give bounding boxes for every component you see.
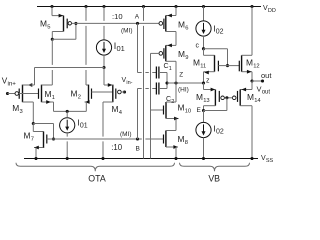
wire C2 to node Z — [159, 88, 167, 90]
junction dot node E — [202, 109, 205, 112]
brace OTA — [16, 163, 175, 172]
wire M2 drain lead — [85, 7, 87, 21]
node out terminal — [261, 79, 264, 82]
wire node B bias line — [54, 138, 142, 140]
wire M12 source lead — [242, 71, 252, 73]
wire common source node — [54, 110, 87, 112]
junction dot VDD/M2 drain — [84, 5, 87, 8]
svg-text:02: 02 — [216, 29, 224, 36]
wire M5 drain lead — [52, 31, 63, 33]
junction dot M5 drain — [51, 38, 54, 41]
svg-text:01: 01 — [80, 122, 88, 129]
wire node A leg to C1 — [137, 23, 139, 72]
junction dot VDD/I01 — [102, 5, 105, 8]
svg-text:A: A — [135, 14, 140, 21]
wire I01 bottom to VSS — [66, 111, 68, 117]
wire M14 drain lead — [240, 105, 252, 107]
junction dot M3-source node — [102, 66, 105, 69]
junction dot M11/M12 gates — [226, 64, 229, 67]
junction dot tail node — [66, 110, 69, 113]
wire M13 source lead — [204, 89, 216, 91]
svg-text:1: 1 — [169, 66, 172, 72]
svg-text:M: M — [112, 104, 119, 114]
wire I01 bottom lead — [103, 55, 105, 67]
wire node C to gates — [204, 48, 228, 50]
svg-text:01: 01 — [117, 44, 125, 53]
svg-text:M: M — [178, 20, 185, 30]
svg-text:B: B — [136, 146, 140, 153]
svg-text:10: 10 — [185, 109, 191, 115]
junction dot VDD/M5 source — [50, 5, 53, 8]
wire M11 drain lead — [203, 49, 205, 56]
junction dot M5 gate — [74, 22, 77, 25]
wire M6 drain lead — [166, 31, 176, 33]
transistor M2 — [91, 89, 93, 99]
wire VDD rail — [37, 6, 261, 8]
svg-text:2: 2 — [78, 95, 81, 101]
junction dot VSS/I01 — [66, 157, 69, 160]
transistor M12 — [238, 61, 240, 72]
svg-text:VB: VB — [208, 173, 220, 183]
svg-text:(HI): (HI) — [178, 86, 189, 93]
wire node Z — [167, 82, 204, 84]
capacitor C2 — [155, 83, 157, 95]
wire out — [252, 80, 263, 82]
wire M12 gate lead — [228, 65, 240, 67]
junction dot C1C2/Z — [165, 81, 168, 84]
svg-text:14: 14 — [254, 98, 261, 104]
svg-text:in+: in+ — [7, 80, 16, 87]
wire M7 source lead — [34, 147, 44, 149]
transistor M7 — [43, 132, 45, 149]
current source I02 top — [196, 21, 211, 36]
current source I02 bottom — [196, 122, 211, 137]
transistor M1 — [38, 89, 40, 99]
svg-text:1: 1 — [52, 95, 55, 101]
svg-text:(MI): (MI) — [121, 28, 133, 35]
svg-text:out: out — [262, 90, 271, 96]
svg-text:M: M — [196, 92, 203, 102]
wire M12 drain lead — [251, 7, 253, 56]
junction dot node C — [202, 47, 205, 50]
wire M3 drain lead — [23, 101, 34, 103]
wire M7 gate-drain hook — [33, 123, 53, 125]
svg-text:z: z — [206, 78, 210, 85]
wire I02 top lead — [203, 7, 205, 22]
junction dot node z — [202, 81, 205, 84]
wire M3 source node line — [35, 67, 105, 69]
transistor M9 — [165, 45, 167, 61]
svg-text:6: 6 — [185, 26, 188, 32]
junction dot VSS/M7 — [34, 157, 37, 160]
transistor M6 — [165, 16, 167, 32]
wire M10 drain lead — [166, 101, 176, 103]
transistor M11 — [214, 55, 216, 71]
wire E to I02 — [203, 111, 205, 123]
wire M9 gate to M10 gate — [151, 52, 159, 54]
wire M1 drain lead — [42, 84, 53, 86]
brace VB — [180, 163, 250, 172]
svg-text:SS: SS — [266, 158, 274, 164]
wire M14 source lead — [251, 81, 253, 90]
junction dot VDD/I02 — [202, 5, 205, 8]
svg-text:02: 02 — [216, 129, 224, 136]
transistor M4 — [115, 89, 117, 99]
wire node A gate line M5-M6 — [72, 22, 159, 24]
wire M5 source lead — [51, 7, 53, 16]
wire M13 drain lead — [204, 105, 216, 107]
wire stub x150 — [150, 110, 152, 159]
wire M4 drain lead — [103, 101, 113, 103]
wire M5 gate-drain hook — [52, 38, 76, 40]
junction dot VDD x143 — [142, 5, 145, 8]
svg-text:DD: DD — [268, 8, 276, 14]
junction dot Z mid — [174, 81, 177, 84]
svg-text:7: 7 — [31, 137, 34, 143]
junction dot VSS/M4 — [101, 157, 104, 160]
svg-text:in-: in- — [126, 80, 132, 86]
junction dot M7 drain — [32, 122, 35, 125]
wire M9 drain lead — [166, 60, 176, 62]
wire C1 to node Z — [159, 72, 167, 74]
wire VSS rail — [24, 158, 258, 160]
wire I01 top lead — [103, 7, 105, 21]
wire M4 source lead — [103, 68, 105, 86]
svg-text:c: c — [196, 43, 200, 50]
transistor M13 — [214, 90, 216, 106]
svg-text:12: 12 — [253, 64, 259, 70]
junction dot VDD/M12 — [250, 5, 253, 8]
svg-text:9: 9 — [185, 55, 188, 61]
wire I02 bottom to VSS — [203, 138, 205, 159]
svg-text:out: out — [261, 71, 272, 80]
junction dot VSS/M8 — [174, 157, 177, 160]
wire M13/M14 gate tie — [224, 97, 232, 99]
svg-text:OTA: OTA — [88, 173, 106, 183]
node Vin+ terminal — [6, 92, 9, 95]
wire M6 source lead — [175, 7, 177, 16]
wire I02 to node C — [203, 36, 205, 49]
wire M8 source lead — [166, 146, 178, 148]
junction dot out — [250, 79, 253, 82]
junction dot node A — [136, 22, 139, 25]
transistor M3 — [15, 92, 19, 96]
wire M11 source lead — [204, 71, 215, 73]
junction dot M7 gate — [52, 137, 55, 140]
svg-text:11: 11 — [200, 64, 206, 70]
transistor M8 — [163, 135, 165, 144]
svg-text:13: 13 — [203, 98, 209, 104]
junction dot VSS/I02 — [202, 157, 205, 160]
transistor M10 — [163, 106, 165, 115]
svg-text:M: M — [247, 92, 254, 102]
junction dot node B — [136, 137, 139, 140]
junction dot VSS/M14 — [250, 157, 253, 160]
wire gate tie to node E — [226, 98, 228, 111]
svg-text:M: M — [178, 134, 185, 144]
svg-text:M: M — [193, 58, 200, 68]
wire M9 source lead — [166, 44, 176, 46]
wire node E — [204, 110, 227, 112]
svg-text:M: M — [24, 131, 31, 141]
svg-text:E: E — [197, 107, 202, 114]
svg-text:M: M — [12, 103, 19, 113]
svg-text:Z: Z — [179, 72, 183, 79]
junction dot VDD/M6 — [174, 5, 177, 8]
current source I01 bottom — [60, 118, 75, 133]
wire M7 drain lead — [32, 124, 34, 132]
svg-text:(MI): (MI) — [120, 131, 132, 138]
current source I01 top — [96, 40, 111, 55]
wire M1 source lead — [42, 101, 54, 103]
junction dot gate tie — [225, 96, 228, 99]
svg-text::10: :10 — [111, 143, 123, 152]
wire vertical bias line x143 — [143, 7, 145, 21]
wire M8 drain lead — [166, 130, 176, 132]
svg-text:5: 5 — [47, 25, 50, 31]
capacitor C1 — [155, 67, 157, 79]
svg-text:M: M — [178, 103, 185, 113]
svg-text:3: 3 — [19, 109, 22, 115]
svg-text:M: M — [178, 49, 185, 59]
wire node B leg to C2 — [137, 89, 139, 140]
svg-text:M: M — [45, 89, 52, 99]
transistor M14 — [239, 90, 241, 106]
svg-text:M: M — [40, 19, 47, 29]
wire M10 source lead — [166, 118, 179, 120]
wire M3 source lead — [28, 83, 33, 87]
node Vin- terminal — [123, 90, 126, 93]
wire M2 source lead — [85, 101, 89, 103]
svg-text::10: :10 — [112, 12, 123, 21]
svg-text:M: M — [246, 58, 253, 68]
wire Vin+ to M3 gate — [8, 93, 16, 95]
svg-text:8: 8 — [185, 140, 188, 146]
transistor M5 — [63, 16, 65, 32]
svg-text:M: M — [71, 89, 78, 99]
